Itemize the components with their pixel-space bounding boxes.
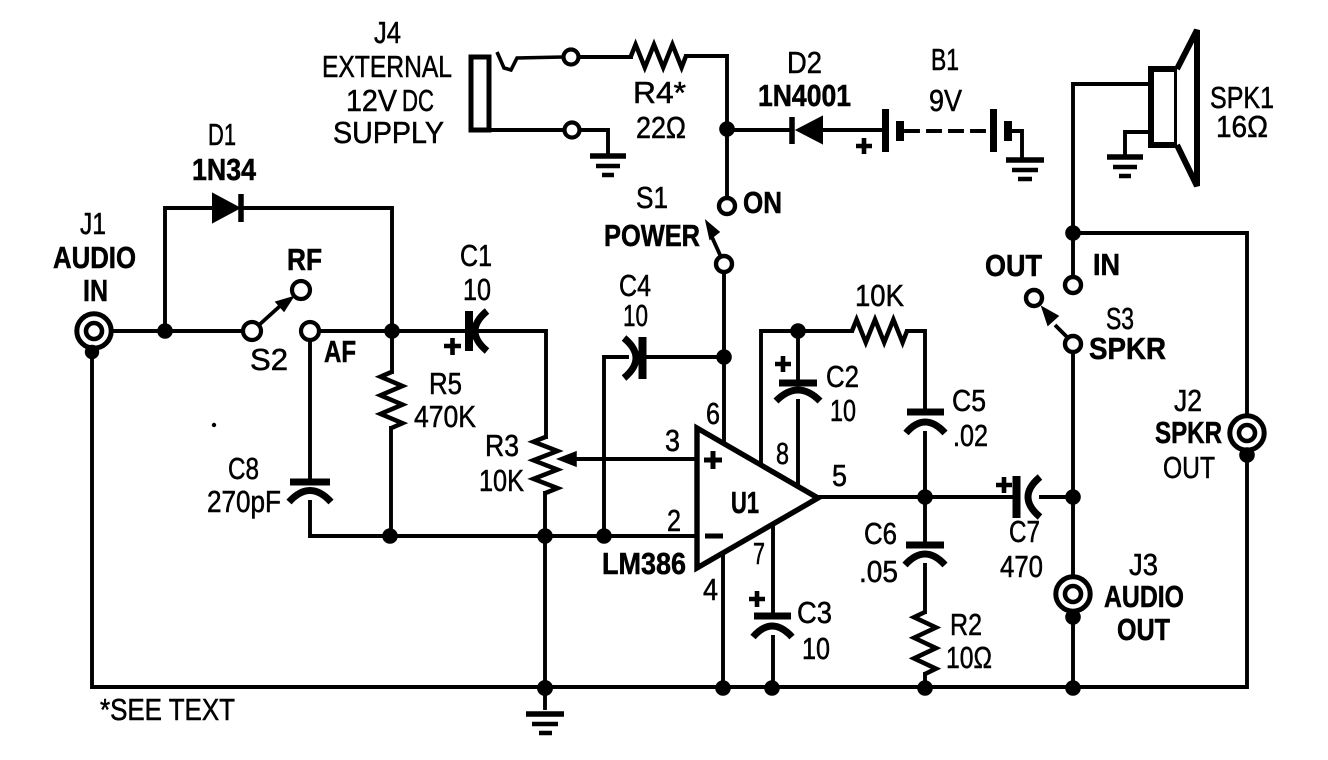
svg-text:C6: C6: [864, 516, 897, 551]
svg-text:J3: J3: [1129, 547, 1158, 582]
switch S3 OUT terminal: [1026, 290, 1042, 306]
svg-text:RF: RF: [287, 242, 322, 277]
svg-text:D2: D2: [787, 45, 822, 80]
jack J2 SPKR OUT: [1230, 416, 1264, 450]
ground at speaker: [1107, 157, 1143, 176]
node junction D1 AF C1 R5: [384, 323, 400, 339]
svg-text:C2: C2: [826, 359, 859, 394]
label S3 SPKR: [1089, 301, 1166, 366]
svg-text:22Ω: 22Ω: [636, 110, 686, 145]
label S3 IN: [1093, 247, 1120, 282]
wire junction to C1: [392, 329, 465, 333]
wire C6 R2 column: [923, 497, 927, 688]
label C2 value: [826, 359, 859, 428]
svg-text:D1: D1: [208, 117, 236, 152]
svg-text:3: 3: [665, 423, 680, 458]
resistor R2: [914, 612, 936, 674]
svg-text:470: 470: [1000, 549, 1043, 584]
svg-text:8: 8: [776, 436, 789, 471]
svg-text:C7: C7: [1009, 514, 1040, 549]
capacitor C8: [289, 482, 331, 502]
resistor R1: [852, 320, 907, 343]
svg-text:C3: C3: [797, 595, 832, 630]
wire J1 to S2 junction: [111, 329, 165, 333]
resistor R4: [631, 45, 686, 68]
terminal J4 tip: [564, 50, 579, 65]
switch S2 common terminal: [243, 322, 261, 340]
label J3: [1104, 547, 1184, 647]
node J1 sleeve lug: [85, 345, 99, 359]
svg-text:U1: U1: [731, 485, 759, 520]
svg-text:OUT: OUT: [1117, 612, 1170, 647]
potentiometer R3 wiper arrow: [558, 452, 576, 466]
switch S3 IN terminal: [1065, 277, 1081, 293]
wire R5 leads: [391, 331, 392, 536]
connector J4 tip contact: [497, 52, 563, 70]
wire speaker feed and right rail: [1073, 84, 1247, 416]
wire J4 sleeve to ground: [474, 130, 608, 153]
wire pin8 and R1 loop: [761, 331, 925, 463]
svg-text:S2: S2: [250, 342, 288, 377]
capacitor C4: [624, 337, 643, 379]
label R1 value: [855, 278, 904, 313]
capacitor C1: [469, 311, 487, 351]
wire R3 wiper to pin 3: [572, 457, 697, 461]
svg-text:C8: C8: [228, 451, 259, 486]
svg-text:10: 10: [623, 298, 648, 333]
label D2 value: [758, 45, 851, 113]
diode D2 1N4001: [792, 117, 822, 144]
svg-text:OUT: OUT: [1163, 450, 1215, 485]
speaker SPK1 body: [1151, 69, 1177, 145]
label C3 value: [797, 595, 832, 666]
label C4 value: [619, 268, 651, 333]
svg-text:R4*: R4*: [633, 75, 686, 110]
svg-text:10Ω: 10Ω: [946, 640, 992, 675]
svg-text:S1: S1: [636, 180, 668, 215]
wire speaker to ground: [1125, 132, 1151, 154]
minus sign U1 inverting input: [705, 534, 723, 539]
node junction R5 bottom: [382, 528, 398, 544]
wire junction to S2 common: [165, 329, 243, 333]
node junction speaker S3: [1065, 225, 1081, 241]
wire J4 tip to R4: [578, 56, 727, 129]
svg-text:C5: C5: [952, 383, 986, 418]
wire R3 bottom to ground rail: [543, 493, 547, 688]
battery B1 cell 2: [994, 109, 1009, 152]
wire D2 to B1: [822, 128, 882, 132]
label R5 value: [414, 366, 476, 434]
svg-text:.05: .05: [859, 554, 898, 589]
switch S1 lever terminal: [716, 256, 732, 272]
node junction rail at J3: [1065, 680, 1081, 696]
plus sign U1 noninverting input: [704, 451, 722, 469]
plus sign C7: [996, 477, 1012, 493]
svg-text:J4: J4: [374, 15, 401, 50]
svg-text:*SEE TEXT: *SEE TEXT: [100, 692, 235, 727]
label S3 OUT: [985, 248, 1042, 283]
diode D1 1N34: [213, 194, 241, 222]
wire pin4 to rail: [721, 552, 725, 688]
label C5 value: [952, 383, 988, 453]
wire C4 branch: [604, 357, 724, 536]
svg-text:4: 4: [703, 572, 718, 607]
svg-text:SPKR: SPKR: [1155, 415, 1222, 450]
plus sign C1: [444, 338, 461, 355]
svg-text:J1: J1: [80, 206, 106, 241]
label S2: [250, 342, 288, 377]
svg-text:OUT: OUT: [985, 248, 1042, 283]
svg-text:1N4001: 1N4001: [758, 78, 851, 113]
switch S1 lever arrow: [706, 221, 721, 257]
label C8 value: [207, 451, 281, 519]
ground at bottom rail: [526, 714, 564, 733]
svg-text:16Ω: 16Ω: [1216, 109, 1268, 144]
connector J4 plug body: [471, 57, 489, 130]
node junction rail at C3: [764, 680, 780, 696]
capacitor C5: [906, 412, 945, 433]
svg-text:AF: AF: [324, 334, 356, 369]
label S2 AF: [324, 334, 356, 369]
svg-text:10K: 10K: [479, 463, 524, 498]
svg-text:12V: 12V: [346, 83, 397, 118]
capacitor C2: [776, 383, 820, 401]
battery B1 cell 1: [886, 109, 901, 152]
label U1 pins: [665, 396, 847, 607]
wire B1 to ground: [1012, 131, 1022, 156]
svg-text:ON: ON: [743, 185, 782, 220]
wire S1 vertical to pin 6: [724, 137, 727, 444]
svg-text:10: 10: [830, 393, 856, 428]
switch S1 ON terminal: [719, 198, 735, 214]
node junction rail at pin4: [715, 680, 731, 696]
svg-text:IN: IN: [83, 273, 108, 308]
wire D1 branch up and over: [165, 208, 392, 331]
svg-text:7: 7: [753, 536, 765, 571]
label LM386: [602, 546, 686, 581]
svg-text:C1: C1: [460, 238, 492, 273]
ground at B1: [1006, 160, 1044, 179]
wire C2 leads: [796, 331, 800, 484]
svg-text:AUDIO: AUDIO: [53, 240, 136, 275]
node junction output C5 C6: [917, 489, 933, 505]
svg-text:EXTERNAL: EXTERNAL: [322, 49, 452, 84]
label S1 ON: [743, 185, 782, 220]
svg-text:LM386: LM386: [602, 546, 686, 581]
svg-text:5: 5: [832, 458, 847, 493]
node junction J1 wire: [157, 323, 173, 339]
svg-text:AUDIO: AUDIO: [1104, 579, 1184, 614]
wire AF down to C8 and pin2 run: [310, 340, 697, 536]
switch S2 lever arrow: [259, 297, 293, 325]
switch S3 SPKR terminal: [1065, 336, 1081, 352]
label J1: [53, 206, 136, 308]
label U1: [731, 485, 759, 520]
svg-text:270pF: 270pF: [207, 484, 281, 519]
capacitor C3: [753, 616, 792, 637]
label C6 value: [859, 516, 898, 589]
node junction rail at R2: [917, 680, 933, 696]
svg-text:470K: 470K: [414, 399, 476, 434]
node J3 sleeve lug: [1065, 609, 1081, 625]
speaker SPK1 cone: [1177, 30, 1197, 186]
svg-text:SPKR: SPKR: [1089, 331, 1166, 366]
wire pin7 to C3 to rail: [771, 527, 775, 688]
node junction rail at R3: [537, 680, 553, 696]
wire S3 SPKR down to C7 junction and J3: [1071, 352, 1075, 687]
capacitor C6: [905, 545, 945, 565]
svg-text:POWER: POWER: [604, 218, 700, 253]
node junction C4 pin6: [716, 349, 732, 365]
jack J1 AUDIO IN: [77, 314, 111, 348]
label J4: [322, 15, 452, 150]
potentiometer R3: [534, 437, 558, 493]
svg-text:SUPPLY: SUPPLY: [333, 115, 444, 150]
svg-text:10K: 10K: [855, 278, 904, 313]
svg-text:.02: .02: [953, 418, 988, 453]
svg-text:6: 6: [706, 396, 720, 431]
label R4 value: [633, 75, 686, 145]
switch S2 RF terminal: [292, 281, 310, 299]
node junction R4 D2 S1: [719, 121, 735, 137]
wire C5 to output junction: [923, 433, 927, 497]
label R2 value: [946, 607, 992, 675]
wire pin5 output: [818, 495, 1073, 499]
label SPK1 value: [1210, 80, 1274, 144]
terminal J4 sleeve: [565, 123, 580, 138]
jack J3 AUDIO OUT: [1056, 577, 1090, 611]
svg-text:DC: DC: [402, 83, 434, 118]
wire AF to C1 junction: [319, 329, 392, 333]
wire B1 dashed cell link: [906, 129, 990, 133]
plus sign C3: [749, 591, 765, 607]
wire C1 to R3 top: [480, 331, 546, 437]
label J2: [1155, 383, 1222, 485]
svg-text:9V: 9V: [929, 83, 962, 118]
svg-text:10: 10: [802, 631, 830, 666]
wire junction to D2: [727, 128, 790, 132]
label C1 value: [460, 238, 492, 307]
label D1 value: [192, 117, 257, 187]
note SEE TEXT: [100, 692, 235, 727]
label R3 value: [479, 428, 524, 498]
wire bottom ground stub: [543, 688, 547, 708]
resistor R5: [381, 372, 403, 428]
label S2 RF: [287, 242, 322, 277]
svg-text:2: 2: [667, 503, 681, 538]
svg-text:R2: R2: [950, 607, 982, 642]
node junction R3 bottom: [537, 528, 553, 544]
op-amp U1 LM386: [697, 428, 818, 568]
capacitor C7: [1017, 476, 1041, 518]
plus sign B1: [856, 138, 872, 154]
stray speck: [212, 423, 216, 427]
svg-text:R3: R3: [485, 428, 519, 463]
node junction pin8 C2 R1: [790, 323, 806, 339]
switch S2 AF terminal: [301, 322, 319, 340]
svg-text:J2: J2: [1174, 383, 1202, 418]
switch S3 lever arrow: [1042, 307, 1068, 338]
svg-text:R5: R5: [429, 366, 462, 401]
label B1 value: [929, 42, 962, 118]
node J2 sleeve lug: [1239, 447, 1255, 463]
ground at J4 sleeve: [590, 156, 626, 175]
svg-text:B1: B1: [931, 42, 959, 77]
wire J1 down left rail and bottom rail: [92, 348, 1247, 687]
svg-text:IN: IN: [1093, 247, 1120, 282]
plus sign C2: [775, 356, 791, 372]
node junction C4 branch: [596, 528, 612, 544]
node junction C7 J3: [1065, 489, 1081, 505]
label S1 POWER: [604, 180, 700, 253]
label C7 value: [1000, 514, 1043, 584]
svg-text:1N34: 1N34: [192, 152, 257, 187]
svg-text:10: 10: [463, 272, 491, 307]
